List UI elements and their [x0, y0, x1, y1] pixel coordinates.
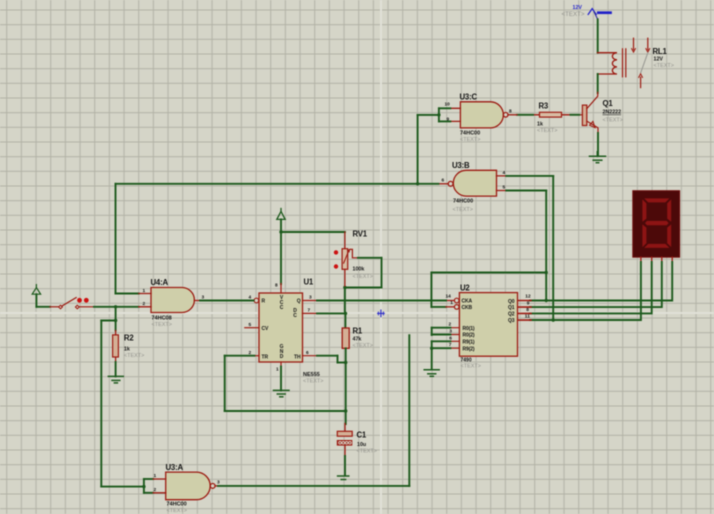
wire Q1 emitter to ground	[597, 133, 600, 156]
wire VCC to U1 pin8 and RV1	[281, 219, 345, 284]
svg-text:<TEXT>: <TEXT>	[152, 322, 172, 328]
wire C1 to ground	[344, 456, 346, 476]
wire U3:B pin4 to Q3	[506, 176, 553, 320]
Q1 labels	[603, 99, 623, 124]
svg-text:TR: TR	[262, 355, 269, 361]
svg-text:5: 5	[503, 185, 506, 191]
svg-text:R0(1): R0(1)	[463, 326, 475, 332]
op-amp U3:C nand gate	[450, 102, 517, 128]
wire relay coil to Q1 collector	[597, 74, 599, 93]
svg-text:R9(1): R9(1)	[463, 340, 475, 346]
wire U3:B output feedback long	[116, 184, 439, 294]
svg-text:C: C	[280, 305, 284, 311]
svg-text:D: D	[280, 354, 284, 360]
svg-text:U4:A: U4:A	[151, 278, 169, 287]
resistor R3	[533, 112, 571, 117]
svg-text:<TEXT>: <TEXT>	[603, 118, 623, 124]
svg-text:<TEXT>: <TEXT>	[167, 508, 187, 514]
relay RL1 coil	[598, 53, 618, 74]
wire display pin2 to Q2	[530, 262, 652, 313]
svg-text:8: 8	[526, 307, 529, 313]
svg-text:<TEXT>: <TEXT>	[537, 128, 557, 134]
svg-text:1k: 1k	[537, 122, 543, 128]
ground under U2	[424, 370, 439, 377]
svg-text:6: 6	[306, 350, 309, 356]
svg-text:R3: R3	[539, 102, 549, 111]
power terminal +12V	[562, 5, 611, 19]
svg-text:74HC00: 74HC00	[167, 502, 187, 508]
svg-text:74HC00: 74HC00	[460, 131, 480, 137]
svg-text:1: 1	[276, 367, 279, 373]
wire switch to U4:A pin2	[94, 306, 139, 308]
svg-text:<TEXT>: <TEXT>	[124, 353, 144, 359]
U2 labels	[446, 284, 531, 370]
svg-text:CV: CV	[262, 326, 270, 332]
svg-text:1: 1	[143, 288, 146, 294]
relay RL1 core bars	[623, 49, 626, 77]
power terminal VCC above U1	[277, 209, 285, 220]
svg-text:CKB: CKB	[462, 305, 473, 311]
and gate U4:A	[139, 288, 200, 313]
wire feedback to U3:C inputs	[418, 115, 439, 184]
wire U3:B pin5 to Q0 and CKB	[431, 191, 546, 307]
wire U1 Q to U2 CKA	[317, 300, 446, 302]
wire U1 pin1 to ground	[280, 367, 282, 391]
C1 labels	[357, 431, 377, 455]
svg-text:6: 6	[442, 178, 445, 184]
wire RV1 bottom down	[344, 288, 347, 328]
svg-text:R2: R2	[124, 334, 134, 343]
resistor R1	[342, 328, 349, 348]
svg-text:<TEXT>: <TEXT>	[453, 207, 473, 213]
op-amp U3:B nand gate mirrored	[438, 170, 506, 196]
svg-text:<TEXT>: <TEXT>	[353, 274, 373, 280]
svg-text:1k: 1k	[124, 347, 130, 353]
svg-text:10: 10	[445, 102, 451, 108]
relay RL1 labels	[653, 47, 674, 69]
U4:A labels	[143, 278, 205, 328]
svg-text:U3:C: U3:C	[460, 93, 478, 102]
svg-text:C: C	[293, 313, 297, 319]
R2 labels	[124, 334, 144, 360]
resistor R2	[113, 331, 119, 363]
node marker blue cross	[378, 310, 385, 317]
svg-text:14: 14	[446, 293, 452, 299]
wire U4:A output to U1 reset	[200, 300, 254, 302]
ground under C1	[338, 476, 349, 480]
wire U1 pin7 to R1 top	[317, 312, 346, 314]
svg-text:TH: TH	[294, 355, 301, 361]
svg-text:Q0: Q0	[508, 299, 515, 305]
wire junction dots	[114, 113, 555, 488]
wire U1 pin6 TH	[317, 356, 346, 363]
wire 12V to relay coil	[597, 19, 599, 52]
nand gate U3:A	[153, 472, 218, 500]
svg-text:Q2: Q2	[508, 312, 515, 318]
ground under U1	[274, 390, 290, 396]
svg-text:8: 8	[275, 283, 278, 289]
wire U3:A input tie	[144, 479, 153, 493]
7-segment display	[633, 191, 680, 263]
svg-text:2: 2	[143, 301, 146, 307]
svg-text:<TEXT>: <TEXT>	[357, 449, 377, 455]
svg-text:5: 5	[249, 322, 252, 328]
switch SW	[50, 298, 94, 309]
RV1 labels	[353, 230, 373, 281]
counter U2 body	[446, 293, 531, 357]
svg-text:R0(2): R0(2)	[463, 333, 475, 339]
U1 labels	[249, 278, 324, 385]
relay RL1 contact	[632, 38, 650, 87]
wire R3 to Q1 base	[571, 114, 580, 116]
svg-text:R9(2): R9(2)	[463, 346, 475, 352]
wire display pin3 to Q1	[530, 262, 662, 307]
U3:C labels	[445, 93, 513, 144]
svg-text:R1: R1	[353, 327, 363, 336]
svg-text:CKA: CKA	[462, 299, 473, 305]
wire U3:A output dangling	[218, 335, 409, 486]
R3 labels	[537, 102, 557, 135]
svg-text:11: 11	[525, 314, 530, 320]
svg-text:9: 9	[527, 301, 530, 307]
power terminal left	[32, 285, 40, 295]
wire U3:C output to R3	[517, 114, 533, 116]
U3:A labels	[154, 463, 221, 514]
U3:B labels	[442, 161, 506, 213]
wire R2 to ground	[115, 362, 117, 376]
wire U2 R9 pins to ground	[432, 341, 451, 369]
svg-text:Q3: Q3	[508, 318, 515, 324]
wire U3:C input tie	[439, 108, 450, 121]
wire display pin4 to Q0	[530, 262, 672, 301]
wire RV1 wiper loop	[345, 258, 382, 288]
svg-text:2: 2	[154, 487, 157, 493]
svg-text:Q1: Q1	[603, 99, 614, 108]
svg-text:R: R	[262, 299, 266, 305]
wire U2 R0 pins tie	[432, 328, 451, 335]
svg-text:1: 1	[154, 473, 157, 479]
svg-text:7: 7	[308, 308, 311, 314]
svg-text:3: 3	[309, 295, 312, 301]
svg-text:12V: 12V	[654, 57, 664, 63]
svg-text:8: 8	[509, 109, 512, 115]
svg-text:U1: U1	[304, 278, 314, 287]
R1 labels	[353, 327, 373, 350]
wire R1 bottom / TH junction down to C1	[345, 348, 347, 424]
svg-text:3: 3	[217, 480, 220, 486]
svg-text:74HC00: 74HC00	[453, 199, 473, 205]
svg-text:1: 1	[450, 300, 453, 306]
svg-text:47k: 47k	[353, 337, 362, 343]
svg-text:Q1: Q1	[508, 305, 515, 311]
svg-text:NE555: NE555	[303, 372, 320, 378]
svg-text:10u: 10u	[357, 442, 366, 448]
svg-text:RL1: RL1	[653, 47, 668, 56]
svg-text:<TEXT>: <TEXT>	[353, 343, 373, 349]
wire switch node to R2 and down	[101, 307, 144, 487]
svg-text:U3:A: U3:A	[166, 463, 184, 472]
svg-text:RV1: RV1	[353, 230, 368, 239]
svg-text:C1: C1	[357, 431, 367, 440]
ground under Q1	[590, 156, 606, 163]
svg-text:100k: 100k	[353, 267, 365, 273]
wire display pin1 to Q3	[530, 262, 641, 320]
svg-text:<TEXT>: <TEXT>	[303, 379, 323, 385]
svg-text:<TEXT>: <TEXT>	[461, 364, 481, 370]
svg-text:4: 4	[503, 170, 506, 176]
capacitor C1	[337, 424, 353, 457]
potentiometer RV1	[334, 232, 358, 288]
timer U1 NE555 body	[245, 284, 317, 367]
svg-text:Q: Q	[297, 299, 301, 305]
transistor Q1	[579, 92, 598, 133]
svg-text:74HC08: 74HC08	[152, 316, 172, 322]
svg-text:<TEXT>: <TEXT>	[460, 137, 480, 143]
svg-text:U2: U2	[460, 284, 470, 293]
svg-text:<TEXT>: <TEXT>	[654, 63, 674, 69]
svg-text:2N2222: 2N2222	[603, 110, 622, 116]
svg-text:12: 12	[525, 294, 531, 300]
svg-text:<TEXT>: <TEXT>	[562, 11, 585, 18]
wire power to switch	[36, 294, 50, 307]
svg-text:U3:B: U3:B	[452, 161, 470, 170]
ground under R2	[108, 376, 123, 383]
wire U1 pin2 TR to C1 top	[225, 356, 346, 411]
